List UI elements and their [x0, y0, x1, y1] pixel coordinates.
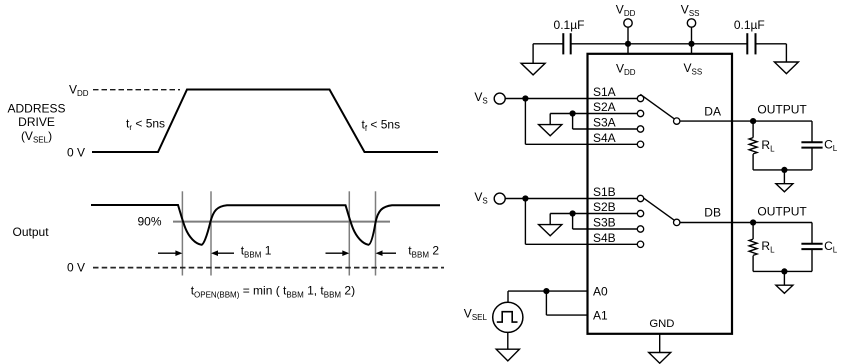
svg-text:90%: 90% [137, 215, 161, 229]
svg-text:S4B: S4B [593, 231, 616, 245]
svg-text:Output: Output [13, 225, 50, 239]
svg-text:DA: DA [704, 105, 721, 119]
svg-text:ADDRESS: ADDRESS [7, 101, 65, 115]
svg-text:0 V: 0 V [67, 146, 85, 160]
svg-text:0.1µF: 0.1µF [554, 18, 585, 32]
svg-text:OUTPUT: OUTPUT [757, 204, 807, 218]
svg-text:S2B: S2B [593, 200, 616, 214]
svg-text:A0: A0 [593, 285, 608, 299]
svg-text:tf < 5ns: tf < 5ns [362, 118, 401, 134]
svg-text:S3B: S3B [593, 216, 616, 230]
svg-text:S3A: S3A [593, 116, 616, 130]
svg-text:A1: A1 [593, 309, 608, 323]
svg-text:S1A: S1A [593, 85, 616, 99]
svg-text:0 V: 0 V [67, 261, 85, 275]
svg-text:S4A: S4A [593, 131, 616, 145]
svg-text:S2A: S2A [593, 100, 616, 114]
svg-text:tr < 5ns: tr < 5ns [126, 117, 165, 133]
svg-text:OUTPUT: OUTPUT [757, 103, 807, 117]
svg-text:DRIVE: DRIVE [18, 115, 55, 129]
svg-text:GND: GND [649, 318, 674, 330]
svg-text:DB: DB [704, 206, 721, 220]
svg-text:0.1µF: 0.1µF [734, 18, 765, 32]
svg-text:S1B: S1B [593, 185, 616, 199]
